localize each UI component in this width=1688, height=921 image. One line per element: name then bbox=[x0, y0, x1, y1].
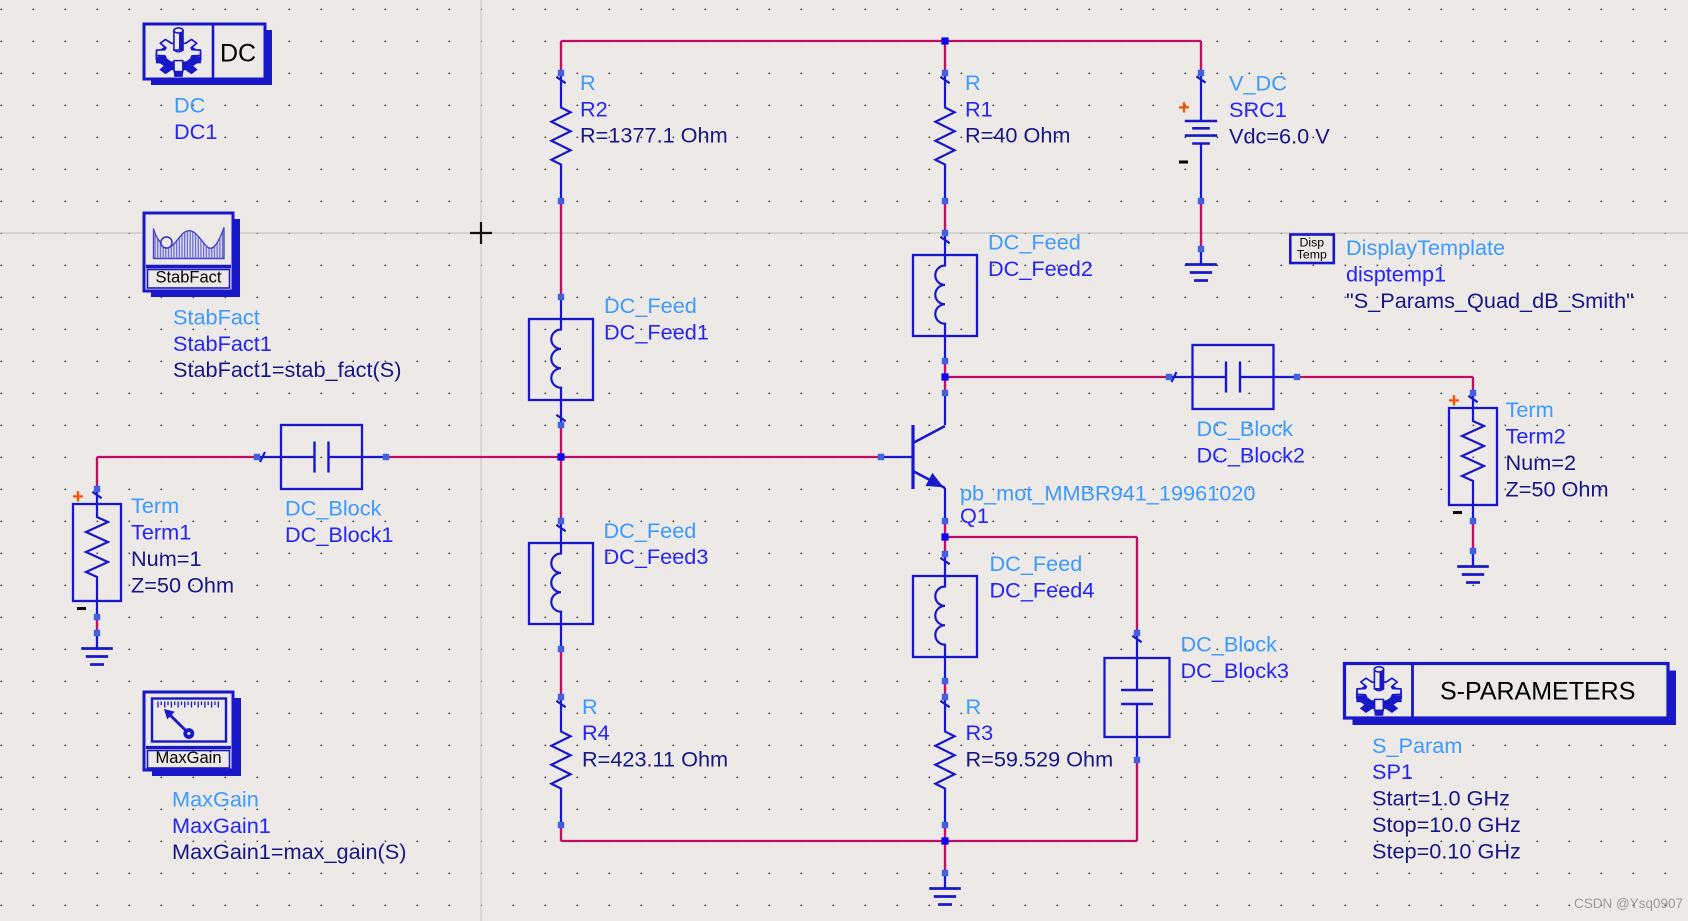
svg-text:Term: Term bbox=[131, 493, 179, 518]
svg-text:MaxGain: MaxGain bbox=[155, 749, 221, 767]
svg-text:StabFact1: StabFact1 bbox=[173, 331, 272, 356]
svg-text:R=59.529 Ohm: R=59.529 Ohm bbox=[966, 746, 1114, 771]
svg-text:DC_Feed: DC_Feed bbox=[988, 230, 1081, 255]
svg-text:R3: R3 bbox=[966, 720, 994, 745]
svg-text:Num=1: Num=1 bbox=[131, 546, 202, 571]
svg-text:StabFact: StabFact bbox=[173, 305, 260, 330]
svg-text:R: R bbox=[965, 70, 981, 95]
svg-text:R=1377.1 Ohm: R=1377.1 Ohm bbox=[580, 123, 728, 148]
svg-text:R: R bbox=[582, 694, 598, 719]
svg-text:Stop=10.0 GHz: Stop=10.0 GHz bbox=[1372, 812, 1521, 837]
svg-text:disptemp1: disptemp1 bbox=[1346, 262, 1446, 287]
svg-text:DC_Block: DC_Block bbox=[285, 496, 382, 521]
svg-text:MaxGain: MaxGain bbox=[172, 787, 259, 812]
svg-text:StabFact: StabFact bbox=[155, 269, 221, 287]
svg-text:DC1: DC1 bbox=[174, 119, 217, 144]
svg-text:R: R bbox=[966, 694, 982, 719]
svg-text:SRC1: SRC1 bbox=[1229, 97, 1287, 122]
svg-text:+: + bbox=[1178, 97, 1190, 119]
svg-text:R=423.11 Ohm: R=423.11 Ohm bbox=[582, 746, 728, 771]
svg-text:DC_Feed: DC_Feed bbox=[604, 293, 697, 318]
svg-text:Step=0.10 GHz: Step=0.10 GHz bbox=[1372, 839, 1521, 864]
svg-text:DC_Feed4: DC_Feed4 bbox=[990, 577, 1095, 602]
svg-text:MaxGain1: MaxGain1 bbox=[172, 813, 271, 838]
svg-text:Term1: Term1 bbox=[131, 520, 191, 545]
svg-text:R=40 Ohm: R=40 Ohm bbox=[965, 123, 1070, 148]
svg-text:DC: DC bbox=[220, 40, 256, 68]
svg-text:DC_Block: DC_Block bbox=[1181, 632, 1278, 657]
svg-text:Temp: Temp bbox=[1297, 248, 1327, 262]
svg-text:DC_Block3: DC_Block3 bbox=[1181, 658, 1289, 683]
svg-text:DC_Feed2: DC_Feed2 bbox=[988, 256, 1093, 281]
svg-text:DC_Block2: DC_Block2 bbox=[1197, 443, 1305, 468]
svg-text:"S_Params_Quad_dB_Smith": "S_Params_Quad_dB_Smith" bbox=[1346, 288, 1634, 313]
svg-text:MaxGain1=max_gain(S): MaxGain1=max_gain(S) bbox=[172, 839, 406, 864]
svg-text:R4: R4 bbox=[582, 720, 610, 745]
svg-text:DC: DC bbox=[174, 93, 205, 118]
svg-text:Num=2: Num=2 bbox=[1506, 450, 1577, 475]
svg-text:Start=1.0 GHz: Start=1.0 GHz bbox=[1372, 786, 1510, 811]
svg-text:R: R bbox=[580, 70, 596, 95]
svg-text:Vdc=6.0 V: Vdc=6.0 V bbox=[1229, 124, 1330, 149]
svg-text:R1: R1 bbox=[965, 96, 993, 121]
svg-text:DisplayTemplate: DisplayTemplate bbox=[1346, 235, 1505, 260]
svg-text:DC_Block1: DC_Block1 bbox=[285, 522, 393, 547]
svg-text:S_Param: S_Param bbox=[1372, 733, 1462, 758]
svg-text:Z=50 Ohm: Z=50 Ohm bbox=[131, 573, 234, 598]
svg-text:DC_Feed1: DC_Feed1 bbox=[604, 320, 709, 345]
svg-text:Q1: Q1 bbox=[960, 503, 989, 528]
svg-text:StabFact1=stab_fact(S): StabFact1=stab_fact(S) bbox=[173, 357, 401, 382]
svg-text:DC_Block: DC_Block bbox=[1197, 416, 1294, 441]
svg-text:Z=50 Ohm: Z=50 Ohm bbox=[1506, 477, 1609, 502]
svg-text:V_DC: V_DC bbox=[1229, 71, 1287, 96]
svg-text:DC_Feed3: DC_Feed3 bbox=[604, 544, 709, 569]
svg-text:SP1: SP1 bbox=[1372, 759, 1413, 784]
svg-text:R2: R2 bbox=[580, 96, 608, 121]
svg-text:Term: Term bbox=[1506, 397, 1554, 422]
svg-text:S-PARAMETERS: S-PARAMETERS bbox=[1440, 678, 1635, 706]
svg-text:pb_mot_MMBR941_19961020: pb_mot_MMBR941_19961020 bbox=[960, 481, 1255, 506]
svg-text:CSDN @Ysq0907: CSDN @Ysq0907 bbox=[1574, 896, 1683, 911]
svg-text:Term2: Term2 bbox=[1506, 424, 1566, 449]
svg-text:DC_Feed: DC_Feed bbox=[604, 518, 697, 543]
svg-text:+: + bbox=[72, 486, 84, 508]
svg-text:+: + bbox=[1448, 390, 1460, 412]
svg-text:DC_Feed: DC_Feed bbox=[990, 551, 1083, 576]
